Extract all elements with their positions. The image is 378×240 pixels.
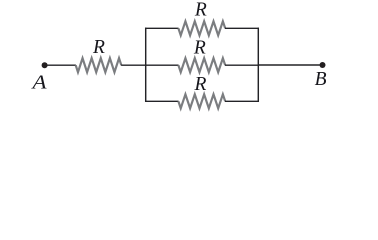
svg-text:A: A (30, 72, 47, 94)
wire right bus to node B (258, 64, 320, 66)
wire middle branch right (225, 64, 259, 66)
svg-text:R: R (194, 0, 207, 21)
svg-text:R: R (92, 37, 105, 58)
wire top branch left (145, 27, 179, 29)
wire bottom branch left (145, 100, 179, 102)
node B (320, 62, 326, 68)
svg-text:B: B (315, 69, 327, 90)
right bus vertical wire (257, 28, 259, 102)
wire top branch right (225, 27, 259, 29)
resistor R3 (middle branch) (178, 58, 225, 72)
wire bottom branch right (225, 100, 259, 102)
node A (42, 62, 48, 68)
svg-text:R: R (193, 37, 206, 58)
wire middle branch left (145, 64, 179, 66)
resistor R1 (series) (76, 58, 122, 72)
wire A to R1 (47, 64, 76, 66)
left bus vertical wire (145, 28, 147, 102)
svg-text:R: R (193, 74, 206, 95)
resistor R2 (top branch) (178, 21, 225, 35)
wire R1 to left bus (121, 64, 146, 66)
resistor R4 (bottom branch) (178, 94, 225, 108)
